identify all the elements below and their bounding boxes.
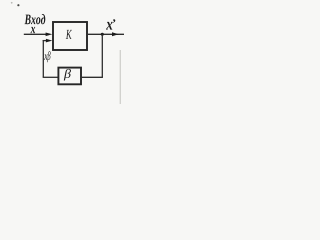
block K: [53, 22, 87, 50]
speckle dot: [11, 2, 13, 4]
wire bottom-right horizontal: [81, 76, 103, 78]
wire bottom-left horizontal: [43, 76, 59, 78]
wire left vertical feedback: [42, 40, 44, 77]
wire output from K: [88, 32, 124, 36]
label Вход: [25, 14, 46, 24]
wire right vertical feedback: [101, 34, 103, 77]
scan artifact line: [120, 50, 121, 104]
wire input arrow into K: [24, 32, 53, 36]
label x (input signal): [31, 27, 36, 33]
label x_beta: [44, 54, 47, 60]
label β: [64, 69, 71, 81]
speckle dot: [17, 4, 19, 6]
block beta: [58, 68, 81, 85]
label К: [66, 30, 72, 39]
label x prime: [106, 22, 112, 30]
node junction: [101, 33, 104, 36]
wire feedback arrow into K: [43, 39, 53, 43]
